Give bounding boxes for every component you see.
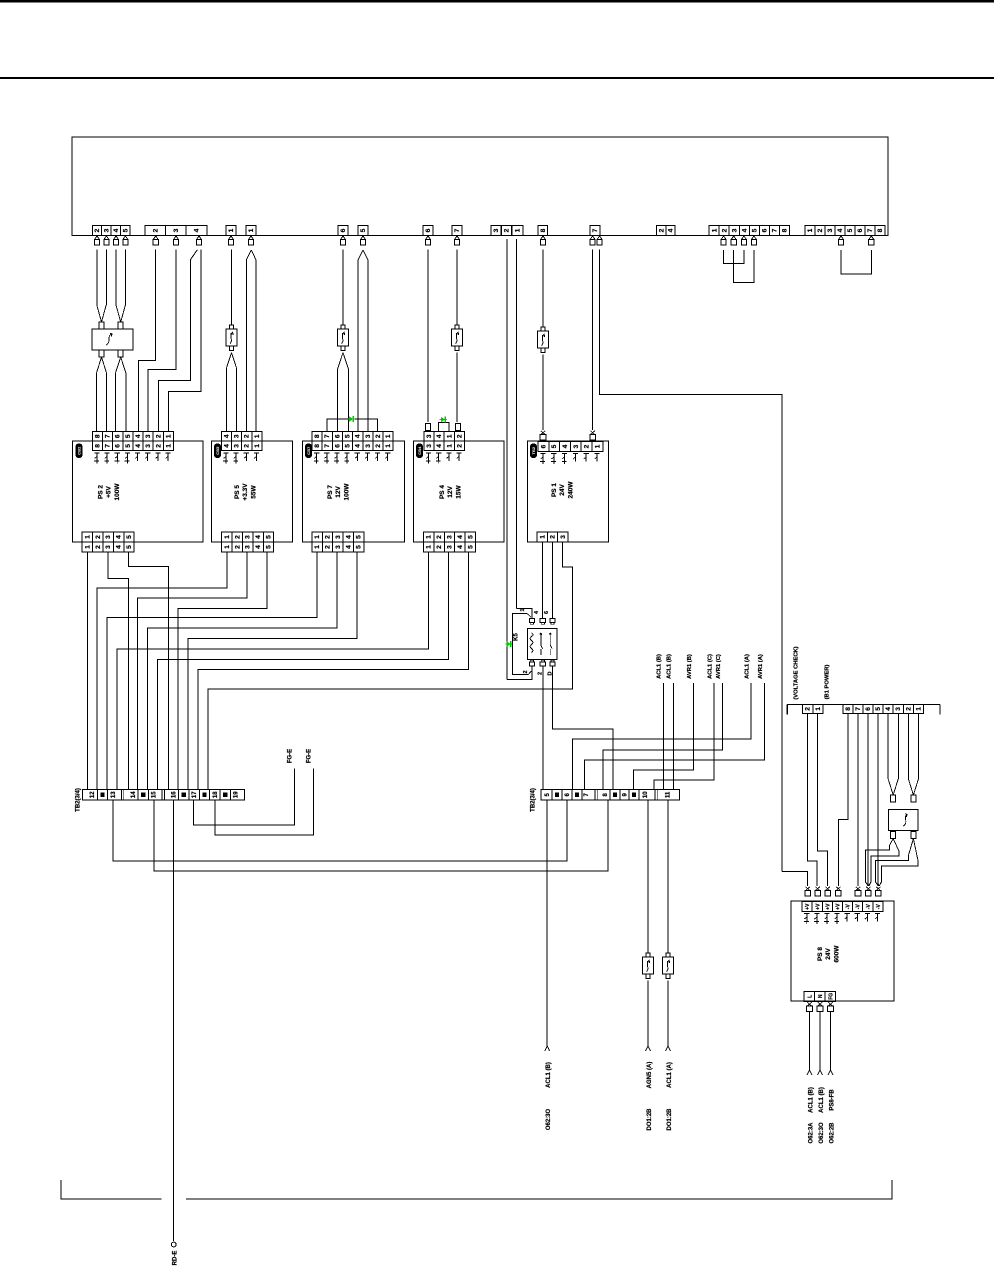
- svg-text:4: 4: [562, 444, 569, 448]
- svg-text:2: 2: [234, 545, 241, 549]
- svg-text:3: 3: [365, 444, 372, 448]
- wire J10 to breaker F4: [542, 250, 544, 327]
- plug terminal J3: [229, 236, 233, 239]
- svg-text:2: 2: [456, 434, 463, 438]
- wire F2 to PS7-6/5: [338, 353, 343, 370]
- svg-text:+V: +V: [825, 903, 831, 910]
- wire bus-K1 to PS8-3: [818, 713, 828, 886]
- open end ACL1(B): [545, 1046, 550, 1051]
- svg-text:PS 2: PS 2: [98, 485, 105, 499]
- svg-text:4: 4: [436, 444, 443, 448]
- svg-text:4: 4: [116, 535, 123, 539]
- svg-text:O62:3O: O62:3O: [819, 1122, 825, 1144]
- svg-text:2: 2: [436, 545, 443, 549]
- svg-text:2: 2: [325, 545, 332, 549]
- svg-text:-V: -V: [846, 904, 852, 910]
- panel bracket bottom: [61, 1180, 162, 1199]
- svg-text:3: 3: [145, 434, 152, 438]
- svg-text:3: 3: [105, 545, 112, 549]
- svg-text:5: 5: [266, 545, 273, 549]
- svg-text:3: 3: [245, 535, 252, 539]
- svg-text:2: 2: [95, 545, 102, 549]
- svg-text:4: 4: [223, 444, 230, 448]
- svg-text:PS8-FB: PS8-FB: [830, 1089, 836, 1111]
- PS7 bracket jumper 7-2 with diode: [327, 419, 377, 432]
- svg-text:5: 5: [356, 535, 363, 539]
- wire FL2b to PS8-8 right leg: [913, 839, 918, 860]
- open end PS8-L: [807, 1070, 812, 1075]
- connector J11 pin 7: [590, 226, 600, 236]
- svg-text:ACL1 (A): ACL1 (A): [744, 654, 750, 679]
- filter FL1 output plugs: [99, 350, 104, 357]
- svg-text:TB2(3/4): TB2(3/4): [76, 788, 82, 812]
- PS1 output terminals 1-3: [537, 532, 547, 542]
- svg-text:4: 4: [255, 545, 262, 549]
- wire TB1-18 to FG stub2: [215, 769, 314, 836]
- power supply PS4 box: [413, 441, 504, 542]
- svg-text:5: 5: [126, 535, 133, 539]
- wire TB1-15 to TB2-8: [154, 800, 608, 871]
- svg-text:4: 4: [194, 228, 201, 232]
- svg-text:4: 4: [345, 545, 352, 549]
- wire filter to PS2-6/5: [116, 357, 121, 373]
- connector J6 pin 5: [358, 226, 368, 236]
- svg-text:3: 3: [104, 228, 111, 232]
- wire F3 to PS4-2: [456, 353, 458, 423]
- svg-text:3: 3: [335, 545, 342, 549]
- svg-text:1: 1: [711, 228, 718, 232]
- svg-text:5: 5: [122, 228, 129, 232]
- svg-text:2: 2: [584, 444, 591, 448]
- plug terminals J1: [95, 236, 99, 239]
- svg-text:FG-E: FG-E: [288, 749, 294, 763]
- bus end tick left: [786, 704, 788, 714]
- svg-text:100W: 100W: [343, 483, 350, 501]
- plug at PS1-1: [590, 431, 594, 435]
- svg-text:10: 10: [643, 791, 649, 798]
- svg-text:2: 2: [95, 535, 102, 539]
- svg-text:3: 3: [426, 434, 433, 438]
- svg-text:2: 2: [244, 434, 251, 438]
- svg-text:CB2: CB2: [76, 446, 81, 455]
- svg-text:2: 2: [504, 228, 511, 232]
- svg-text:8: 8: [540, 228, 547, 232]
- wire PS5-1 to TB1: [97, 552, 227, 790]
- svg-text:8: 8: [314, 434, 321, 438]
- svg-text:5: 5: [752, 228, 759, 232]
- wire J2-2 to PS2-4: [138, 250, 155, 432]
- svg-text:6: 6: [115, 434, 122, 438]
- wire J9-1 to K5 A1: [516, 608, 532, 618]
- svg-text:ACL1 (B): ACL1 (B): [809, 1087, 815, 1113]
- wire PS2-1 to TB1: [87, 552, 89, 790]
- PS1 input terminals 6-1: [538, 442, 549, 452]
- svg-text:3: 3: [173, 228, 180, 232]
- PS5 output terminals 1-5: [222, 532, 232, 542]
- connector J8 pin 7: [452, 226, 462, 236]
- wire PS4-3 to TB1: [157, 552, 448, 790]
- svg-text:12V: 12V: [447, 486, 454, 498]
- wire FL2b to PS8-8 left leg: [908, 839, 913, 856]
- wire TB2-5 to ACL1(B): [546, 800, 548, 1046]
- wire PS8-FG down: [830, 1012, 832, 1071]
- svg-text:3: 3: [234, 434, 241, 438]
- svg-text:PS 1: PS 1: [551, 483, 558, 497]
- wire J6 to PS7-4/3: [358, 250, 363, 260]
- svg-text:1: 1: [224, 545, 231, 549]
- title block separator line: [0, 77, 994, 79]
- circuit breaker label CB7: [305, 444, 312, 459]
- bus connector L pins 8-1: [843, 704, 853, 713]
- wire J1-5 to filter: [124, 250, 126, 305]
- wire J8 to breaker F3: [456, 250, 458, 325]
- circuit breaker label CB4: [416, 444, 423, 459]
- plug terminal J6: [361, 236, 365, 239]
- svg-text:1: 1: [807, 228, 814, 232]
- wire from ACL1 (A): [573, 683, 751, 790]
- wire J3 to breaker F1: [231, 250, 233, 325]
- wire from AVR1 (A): [584, 683, 764, 790]
- svg-text:1: 1: [815, 707, 822, 711]
- wire FL2 to PS8-7 right leg: [893, 839, 899, 851]
- svg-text:O62:3A: O62:3A: [809, 1122, 815, 1144]
- svg-text:3: 3: [731, 228, 738, 232]
- svg-text:2: 2: [523, 670, 529, 673]
- svg-text:3: 3: [493, 228, 500, 232]
- PS8 output plugs: [807, 1002, 811, 1006]
- wire PS5-5 to TB1: [178, 552, 267, 790]
- svg-text:1: 1: [539, 535, 546, 539]
- svg-text:3: 3: [105, 535, 112, 539]
- svg-text:2: 2: [244, 444, 251, 448]
- wire J5 to breaker F2: [342, 250, 344, 325]
- svg-text:K5: K5: [514, 633, 520, 641]
- svg-text:5: 5: [125, 434, 132, 438]
- svg-text:O62:2B: O62:2B: [830, 1122, 836, 1144]
- svg-text:1: 1: [426, 535, 433, 539]
- svg-text:+3.3V: +3.3V: [242, 483, 249, 501]
- svg-text:3: 3: [245, 545, 252, 549]
- svg-text:4: 4: [457, 545, 464, 549]
- wire from AVR1 (C): [603, 683, 723, 790]
- svg-text:4: 4: [255, 535, 262, 539]
- svg-text:5: 5: [125, 444, 132, 448]
- svg-text:-V: -V: [856, 904, 862, 910]
- svg-text:+V: +V: [815, 903, 821, 910]
- wire from ACL1 (C): [654, 683, 714, 790]
- svg-text:3: 3: [335, 535, 342, 539]
- svg-text:15W: 15W: [455, 484, 462, 498]
- plug at PS4-2: [456, 424, 461, 431]
- svg-text:6: 6: [762, 228, 769, 232]
- wire PS7-3 to TB1: [148, 552, 338, 790]
- wire J2-3 to PS2-3: [148, 250, 176, 432]
- bus end tick right: [939, 704, 941, 714]
- svg-text:1: 1: [84, 545, 91, 549]
- filter FL2 box: [889, 810, 919, 831]
- svg-text:ACL1 (B): ACL1 (B): [819, 1087, 825, 1113]
- wire bus-L6 to PS8-7: [867, 713, 870, 886]
- svg-text:5: 5: [875, 707, 882, 711]
- wire FL2 to PS8-7 left leg: [889, 839, 893, 846]
- svg-text:6: 6: [115, 444, 122, 448]
- svg-text:55W: 55W: [250, 484, 257, 498]
- power supply PS1 box: [528, 441, 609, 542]
- PS4 bracket jumper 4-1 with diode: [439, 422, 449, 431]
- open end ACL1(A): [666, 1046, 671, 1051]
- svg-text:3: 3: [145, 444, 152, 448]
- connector J3 pin 1: [226, 226, 236, 236]
- svg-text:CB5: CB5: [215, 446, 220, 455]
- svg-text:7: 7: [454, 228, 461, 232]
- wire bus-L7 to PS8-6: [857, 713, 859, 886]
- plug at PS4-3: [426, 424, 431, 431]
- wire F4 to PS1-6: [542, 355, 544, 431]
- svg-text:2: 2: [905, 707, 912, 711]
- connector J14 pins 1-8: [805, 226, 815, 236]
- svg-text:7: 7: [105, 444, 112, 448]
- svg-text:2: 2: [658, 228, 665, 232]
- PS2 output terminals 1-5: [82, 532, 92, 542]
- relay K5 bottom plugs: [530, 660, 533, 662]
- svg-text:2: 2: [375, 444, 382, 448]
- wire J2-4b to PS2-1: [169, 250, 202, 432]
- plug at PS1-6: [541, 431, 545, 435]
- svg-text:17: 17: [192, 791, 198, 798]
- connector J4 pin 1: [246, 226, 256, 236]
- circuit breaker label CB2: [76, 444, 83, 459]
- svg-text:5: 5: [126, 545, 133, 549]
- fuse F6: [666, 953, 670, 957]
- PS8 output terminals L N FG: [804, 991, 815, 1001]
- svg-text:-V: -V: [866, 904, 872, 910]
- svg-text:4: 4: [116, 545, 123, 549]
- svg-text:7: 7: [592, 228, 599, 232]
- terminal strip TB1 body: [83, 790, 245, 800]
- plug terminals J2: [154, 236, 158, 239]
- svg-text:7: 7: [867, 228, 874, 232]
- svg-text:-V: -V: [876, 904, 882, 910]
- connector J7 pin 6: [423, 226, 433, 236]
- wire J2-4a to PS2-2: [158, 250, 197, 432]
- svg-text:2: 2: [94, 228, 101, 232]
- wire J1-3 to filter: [105, 250, 107, 305]
- wire PS7-1 to TB1: [107, 552, 317, 790]
- svg-text:2: 2: [153, 228, 160, 232]
- svg-text:1: 1: [446, 434, 453, 438]
- connector J9 pins 3-1: [491, 226, 501, 236]
- svg-text:1: 1: [165, 434, 172, 438]
- svg-text:6: 6: [425, 228, 432, 232]
- relay K5 contact 2: [549, 633, 551, 645]
- svg-text:8: 8: [314, 444, 321, 448]
- svg-text:2: 2: [721, 228, 728, 232]
- wire F6 to ACL1(A): [667, 981, 669, 1047]
- svg-text:8: 8: [877, 228, 884, 232]
- svg-text:1: 1: [446, 444, 453, 448]
- connector J10 pin 8: [538, 226, 548, 236]
- svg-text:3: 3: [573, 444, 580, 448]
- wire F5 to AGN5(A): [647, 981, 649, 1047]
- plug terminal J7: [426, 236, 430, 239]
- svg-text:7: 7: [105, 434, 112, 438]
- filter FL1 box: [92, 329, 133, 350]
- open end PS8-FG: [828, 1070, 833, 1075]
- svg-text:7: 7: [855, 707, 862, 711]
- PS4 output terminals 1-5: [424, 532, 434, 542]
- wire PS7-5 to TB1: [188, 552, 357, 790]
- svg-text:5: 5: [467, 535, 474, 539]
- svg-text:6: 6: [334, 444, 341, 448]
- plug terminal J5: [341, 236, 345, 239]
- terminal strip TB2 body: [541, 790, 679, 800]
- svg-text:4: 4: [355, 434, 362, 438]
- svg-text:CB7: CB7: [306, 446, 311, 455]
- svg-text:+5V: +5V: [106, 485, 113, 497]
- svg-text:CB4: CB4: [417, 446, 422, 455]
- svg-text:11: 11: [666, 791, 672, 798]
- svg-text:ACL1 (B): ACL1 (B): [546, 1062, 552, 1088]
- svg-text:7: 7: [324, 434, 331, 438]
- connector J1 pins 2-5: [92, 226, 101, 236]
- plug terminals J13 pins 2-5: [721, 236, 725, 239]
- connector J5 pin 6: [338, 226, 348, 236]
- wire K5 A1-A2 loop: [513, 614, 529, 675]
- svg-text:1: 1: [515, 228, 522, 232]
- svg-text:(VOLTAGE CHECK): (VOLTAGE CHECK): [794, 646, 800, 699]
- wire J7 to PS4-3: [427, 250, 429, 422]
- connector J13 pins 1-8: [709, 226, 719, 236]
- svg-text:L: L: [807, 995, 813, 998]
- plug terminals J11 (double): [590, 236, 594, 239]
- svg-text:3: 3: [234, 444, 241, 448]
- filter FL1 input plugs: [99, 322, 104, 329]
- svg-text:4: 4: [837, 228, 844, 232]
- svg-text:1: 1: [385, 444, 392, 448]
- wire PS4-5 to TB1: [198, 552, 469, 790]
- svg-text:4: 4: [355, 444, 362, 448]
- svg-text:24V: 24V: [559, 484, 566, 496]
- fuse F5: [646, 953, 650, 957]
- svg-text:2: 2: [550, 535, 557, 539]
- svg-text:6: 6: [340, 228, 347, 232]
- wire J1-2 to filter: [96, 250, 98, 305]
- svg-text:2: 2: [805, 707, 812, 711]
- svg-text:2: 2: [436, 535, 443, 539]
- svg-text:24V: 24V: [825, 948, 832, 960]
- svg-text:14: 14: [131, 791, 137, 798]
- svg-text:5: 5: [345, 434, 352, 438]
- svg-text:4: 4: [741, 228, 748, 232]
- open end PS8-N: [818, 1070, 823, 1075]
- svg-text:(B1 POWER): (B1 POWER): [825, 665, 831, 700]
- svg-text:2: 2: [155, 444, 162, 448]
- svg-text:7: 7: [324, 444, 331, 448]
- svg-text:1: 1: [426, 545, 433, 549]
- svg-text:PS 5: PS 5: [234, 485, 241, 499]
- svg-text:AVR1 (A): AVR1 (A): [758, 654, 764, 679]
- svg-text:100W: 100W: [114, 483, 121, 501]
- diode D2 green: [441, 417, 445, 423]
- svg-text:19: 19: [234, 791, 240, 798]
- wire K5 to TB2-5: [542, 667, 544, 790]
- svg-text:AVR1 (C): AVR1 (C): [716, 654, 722, 679]
- svg-text:1: 1: [520, 608, 526, 611]
- wire PS1-3 to TB1: [208, 542, 572, 790]
- wire TB2-11 to fuse F6: [667, 800, 669, 953]
- relay K5 top plugs: [529, 619, 534, 623]
- svg-text:8: 8: [845, 707, 852, 711]
- wire J1-4 to filter: [115, 250, 117, 305]
- svg-text:6: 6: [334, 434, 341, 438]
- wire right bus to PS8-1: [782, 871, 808, 886]
- svg-text:1: 1: [84, 535, 91, 539]
- wire J9-2 to K5 A2: [507, 667, 532, 680]
- svg-text:3: 3: [365, 434, 372, 438]
- svg-text:2: 2: [325, 535, 332, 539]
- svg-text:ACL1 (A): ACL1 (A): [667, 1062, 673, 1088]
- PS8 input plugs: [806, 887, 810, 891]
- svg-text:3: 3: [827, 228, 834, 232]
- wire bus-L4/L3 to filter FL2: [887, 713, 889, 779]
- svg-text:PS 4: PS 4: [439, 485, 446, 499]
- wire PS2-5 to TB1: [129, 552, 169, 790]
- circuit breaker F1: [229, 325, 233, 329]
- svg-text:1: 1: [224, 535, 231, 539]
- svg-text:5: 5: [345, 444, 352, 448]
- wire TB1-17 to FG stub1: [194, 769, 295, 826]
- wire PS1-2 to K5: [551, 542, 553, 619]
- wire PS2-3 to TB1: [108, 552, 129, 790]
- svg-text:5: 5: [266, 535, 273, 539]
- svg-text:ACL1 (B): ACL1 (B): [657, 654, 663, 679]
- svg-text:6: 6: [857, 228, 864, 232]
- svg-text:DO1:2B: DO1:2B: [667, 1108, 673, 1131]
- wire F1 to PS5-4/3: [227, 353, 232, 369]
- svg-text:4: 4: [135, 444, 142, 448]
- svg-text:TB2: TB2: [531, 446, 536, 454]
- svg-text:4: 4: [223, 434, 230, 438]
- svg-text:1: 1: [248, 228, 255, 232]
- wire TB2-10 to fuse F5: [647, 800, 649, 953]
- terminal label TB2 pill: [530, 444, 537, 459]
- svg-text:6: 6: [865, 707, 872, 711]
- connector J2 pins 2-4: [145, 226, 166, 236]
- PS5 input terminals 4-1: [221, 432, 231, 442]
- wire PS5-3 to TB1: [138, 552, 248, 790]
- wire PS4-1 to TB1: [117, 552, 428, 790]
- PS4 input terminals 3,4,1,2: [424, 432, 434, 442]
- wire J11a to PS1-1: [592, 250, 594, 430]
- svg-text:+V: +V: [805, 903, 811, 910]
- diode D3 green: [507, 641, 511, 647]
- svg-text:13: 13: [111, 791, 117, 798]
- filter FL2 input plug left: [891, 795, 896, 802]
- wire bus-L2/L1 to filter FL2: [907, 713, 909, 779]
- PS2 input terminals 8-1: [92, 432, 102, 442]
- svg-text:1: 1: [254, 434, 261, 438]
- svg-text:FG-E: FG-E: [307, 749, 313, 763]
- relay K5 coil: [530, 633, 533, 653]
- svg-text:TB2(3/4): TB2(3/4): [531, 788, 537, 812]
- svg-text:6: 6: [540, 444, 547, 448]
- svg-text:3: 3: [447, 545, 454, 549]
- main enclosure outline: [72, 137, 888, 236]
- title block top border line: [0, 0, 994, 2]
- plug terminal J4: [249, 236, 253, 239]
- svg-text:5: 5: [360, 228, 367, 232]
- svg-text:PS 8: PS 8: [817, 947, 824, 961]
